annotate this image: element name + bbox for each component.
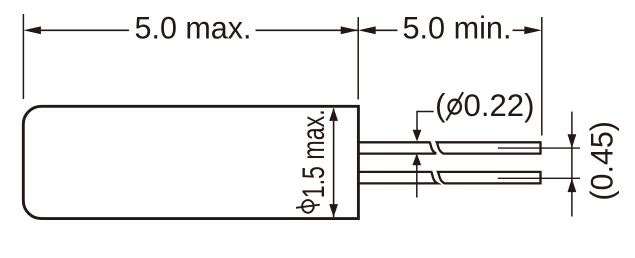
lead 2 (bottom) left segment with break (358, 172, 438, 184)
dimension 5.0 max: left line segment (40, 29, 129, 31)
(phi 0.22) down arrowhead onto lead top edge (413, 130, 422, 142)
lead 1 (top) right segment with break and end cap (437, 142, 541, 153)
(0.45) vertical dimension line (571, 112, 573, 217)
svg-text:0.22): 0.22) (464, 87, 535, 123)
lead 1 (top) left segment with break (358, 142, 437, 153)
svg-text:5.0 min.: 5.0 min. (403, 10, 512, 46)
(phi 0.22) up arrowhead onto lead bottom edge (412, 153, 421, 165)
(0.45) up arrowhead (568, 178, 577, 192)
dimension 5.0 max: left arrowhead (23, 26, 41, 34)
extension line left (body left) (22, 14, 24, 99)
dimension 5.0 min: right line segment (513, 29, 526, 31)
svg-text:1.5 max.: 1.5 max. (295, 109, 331, 198)
dimension 5.0 max: right line segment (256, 29, 358, 31)
dimension 5.0 min: right arrowhead (524, 26, 542, 34)
svg-text:(: ( (435, 87, 446, 123)
phi symbol of rotated label phi 1.5 max (296, 200, 320, 213)
(phi 0.22) lower tail line (416, 165, 418, 198)
svg-text:(0.45): (0.45) (584, 121, 620, 201)
crystal body (cylinder, rounded left end) (23, 106, 358, 218)
dimension phi 1.5 max: up arrowhead (329, 108, 338, 121)
leader line for (phi 0.22) (417, 112, 434, 131)
dimension 5.0 min: left line segment (375, 29, 398, 31)
(0.45) top extension line from lead 1 centerline (498, 147, 580, 149)
svg-text:5.0 max.: 5.0 max. (135, 9, 252, 45)
(0.45) bottom extension line from lead 2 centerline (498, 177, 580, 179)
dimension 5.0 min: left arrowhead (358, 26, 376, 34)
(0.45) down arrowhead (568, 134, 577, 148)
label (phi 0.22): phi symbol (446, 92, 463, 120)
dimension 5.0 max: right arrowhead (341, 26, 359, 34)
lead 2 (bottom) right segment with break and end cap (438, 172, 541, 184)
dimension phi 1.5 max: vertical line inside body (333, 109, 335, 218)
dimension phi 1.5 max: down arrowhead (329, 204, 338, 217)
extension line middle (body right) (357, 17, 359, 100)
extension line right (lead tips) (541, 17, 543, 136)
